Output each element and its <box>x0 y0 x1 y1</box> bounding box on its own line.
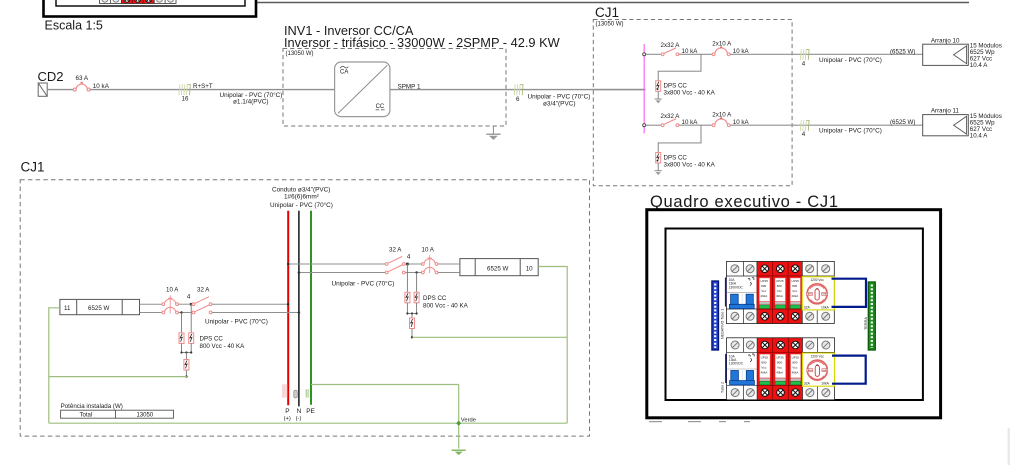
svg-text:6: 6 <box>516 96 520 103</box>
svg-text:4: 4 <box>187 294 191 301</box>
breaker 10A 2-pole (right branch) <box>421 246 438 274</box>
wires box to breaker (right branch) <box>438 264 460 273</box>
inverter CC symbol <box>376 104 385 110</box>
breaker 2x32A 10kA (branch 1) <box>661 42 699 55</box>
node CD2 label <box>38 69 64 84</box>
power label branch 2 <box>890 119 915 126</box>
vertical label NEGATIVO row 1 <box>720 309 724 339</box>
earth wire loop row 1 (blue) <box>832 279 867 307</box>
svg-text:4: 4 <box>802 131 806 138</box>
conduit labels <box>270 186 333 209</box>
DPS CC branch 2 tap wire <box>658 125 701 152</box>
svg-text:10 A: 10 A <box>166 287 179 294</box>
svg-text:P: P <box>285 408 289 415</box>
DPS tap wires (left branch) <box>182 304 192 333</box>
breaker 63A 10kA <box>73 75 109 91</box>
hatch on PE line <box>306 389 308 397</box>
svg-text:Total: Total <box>80 413 93 419</box>
DPS CC branch 1 tap wire <box>658 54 701 81</box>
hatch 4 (branch 1) <box>800 49 809 67</box>
svg-text:1#6(6)6mm²: 1#6(6)6mm² <box>284 194 319 201</box>
load box 6525 W / 10 <box>460 259 538 276</box>
DPS tie bar (left branch) <box>180 343 192 353</box>
svg-text:10.4 A: 10.4 A <box>970 132 988 139</box>
DPS CC (branch 1) <box>656 81 716 97</box>
hatch 6 on AC output <box>514 84 523 103</box>
cut text marks below panel <box>649 421 750 423</box>
svg-text:Unipolar - PVC (70°C): Unipolar - PVC (70°C) <box>819 56 882 64</box>
svg-text:6525 W: 6525 W <box>88 305 109 312</box>
label Escala 1:5 <box>45 18 103 32</box>
svg-text:4: 4 <box>802 60 806 67</box>
PE wire left branch (green) <box>49 308 187 423</box>
executive panel outer box <box>647 210 941 418</box>
svg-text:DPS CC: DPS CC <box>200 335 224 342</box>
ground DPS branch 1 <box>655 91 662 103</box>
DPS tie bar (right branch) <box>406 303 417 315</box>
earth terminal strip (green) <box>868 282 875 350</box>
svg-text:3x800 Vcc - 40 KA: 3x800 Vcc - 40 KA <box>664 90 716 97</box>
line N negative (black) <box>298 211 300 407</box>
svg-text:NEGATIVO Tubo 1: NEGATIVO Tubo 1 <box>720 309 724 339</box>
label SPMP 1 <box>398 83 421 90</box>
DPS CC (branch 2) <box>656 153 716 169</box>
svg-text:CJ1: CJ1 <box>21 159 45 174</box>
DPS CC third (left branch) <box>184 353 189 378</box>
Arranjo 11 data labels <box>970 113 1002 139</box>
cable label unipolar 3/4 <box>528 92 591 107</box>
svg-text:N: N <box>297 408 302 415</box>
INV1 heading <box>284 23 561 50</box>
svg-text:32 A: 32 A <box>197 287 210 294</box>
svg-text:13050: 13050 <box>137 413 154 419</box>
svg-text:CD2: CD2 <box>38 69 64 84</box>
breaker 32A 2-pole (left branch) <box>192 287 212 314</box>
cable label unipolar 1.1/4 <box>220 91 283 105</box>
svg-text:CJ1: CJ1 <box>595 5 619 20</box>
DPS CC pair (right branch) <box>405 292 469 309</box>
svg-text:DPS CC: DPS CC <box>423 295 447 302</box>
inverter frame ground <box>486 126 500 140</box>
svg-text:TERRA: TERRA <box>864 317 868 330</box>
rail stub row 2 <box>725 354 727 383</box>
wires box to breaker (left branch) <box>140 304 162 312</box>
DIN terminal cells row (cut) <box>100 0 177 3</box>
label Arranjo 11 <box>931 108 960 115</box>
CJ1 (top) power label <box>596 22 624 28</box>
negative terminal strip (blue) <box>712 281 719 350</box>
inverter U1 body <box>335 62 390 117</box>
svg-text:Tubo 2: Tubo 2 <box>720 382 724 393</box>
wire node to breaker 2.1 <box>646 124 662 126</box>
svg-text:2x32 A: 2x32 A <box>661 113 681 120</box>
PE wire right branch (green) <box>412 267 567 424</box>
scrollbar hint right edge <box>1008 428 1010 465</box>
busbar CC (magenta) <box>643 44 645 133</box>
svg-text:R+S+T: R+S+T <box>193 83 213 90</box>
wire CD2 to breaker <box>47 89 73 91</box>
svg-text:2x32 A: 2x32 A <box>661 42 681 49</box>
wire inverter to CJ1 busbar <box>390 88 646 90</box>
DIN assembly row 2 <box>727 338 835 400</box>
svg-text:(13050 W): (13050 W) <box>596 22 624 28</box>
earth wire loop row 2 (blue) <box>832 356 866 384</box>
svg-text:DPS CC: DPS CC <box>664 83 688 90</box>
svg-text:2x10 A: 2x10 A <box>712 111 732 118</box>
svg-text:6525 W: 6525 W <box>487 265 508 272</box>
DPS tap wires (right branch) <box>407 264 416 292</box>
inverter CA symbol <box>340 66 348 75</box>
quadro CD2 panel outer box (cut off at top) <box>44 0 257 17</box>
breaker 2x10A 10kA (branch 1) <box>712 40 749 55</box>
wire breaker to arranjo 10 <box>730 53 923 55</box>
svg-text:Unipolar - PVC (70°C): Unipolar - PVC (70°C) <box>332 279 395 287</box>
svg-text:3x800 Vcc - 40 KA: 3x800 Vcc - 40 KA <box>664 161 716 168</box>
conductor labels P N PE <box>284 408 316 422</box>
wire breaker to inverter <box>90 89 335 91</box>
wire between breakers (branch 1) <box>679 53 713 55</box>
page top border line <box>255 2 969 4</box>
cable label branch 1 <box>819 56 882 64</box>
svg-text:Conduto ø3/4"(PVC): Conduto ø3/4"(PVC) <box>272 186 330 193</box>
quadro CD2 panel inner box <box>56 0 245 6</box>
svg-text:Unipolar - PVC (70°C): Unipolar - PVC (70°C) <box>819 127 882 135</box>
svg-text:ø1.1/4(PVC): ø1.1/4(PVC) <box>233 98 269 105</box>
vertical label TERRA <box>864 317 868 330</box>
breaker 2x32A 10kA (branch 2) <box>661 113 699 127</box>
svg-text:(-): (-) <box>296 416 302 422</box>
CJ1 (top) label <box>595 5 619 20</box>
sleeve on N line <box>294 390 298 398</box>
hatch on P line <box>283 384 287 397</box>
cable label branch 2 <box>819 127 882 135</box>
wire and taps between breakers (right branch) <box>405 253 421 273</box>
svg-text:Arranjo 10: Arranjo 10 <box>931 37 960 44</box>
breaker 10A 2-pole (left branch) <box>162 287 179 314</box>
svg-text:PE: PE <box>306 408 315 415</box>
wire breaker to arranjo 11 <box>730 124 923 126</box>
executive panel inner box <box>666 229 923 401</box>
CJ1 (top) dashed enclosure <box>593 20 792 186</box>
hatch 4 (branch 2) <box>800 120 809 138</box>
INV1 dashed enclosure <box>283 49 506 127</box>
svg-text:11: 11 <box>64 305 71 312</box>
svg-text:CA: CA <box>340 70 348 76</box>
earth ground (green) <box>452 450 466 455</box>
svg-text:CC: CC <box>376 104 385 110</box>
svg-text:10 A: 10 A <box>422 246 435 253</box>
CJ1 (bottom) label <box>21 159 45 174</box>
node branch 2 <box>643 124 646 127</box>
svg-text:2x10 A: 2x10 A <box>712 40 732 47</box>
vertical label row 2 <box>720 382 724 393</box>
svg-text:800 Vcc - 40 KA: 800 Vcc - 40 KA <box>200 343 246 350</box>
hatch R+S+T (16) <box>179 83 213 103</box>
Arranjo 10 data labels <box>970 43 1002 70</box>
PE branch from PE line (green) <box>311 385 461 449</box>
svg-text:4: 4 <box>407 253 411 260</box>
svg-text:(13050 W): (13050 W) <box>286 51 314 57</box>
svg-text:Unipolar - PVC (70°C): Unipolar - PVC (70°C) <box>205 318 268 326</box>
svg-text:10: 10 <box>526 265 533 272</box>
svg-text:(6525 W): (6525 W) <box>890 119 915 126</box>
PV array Arranjo 11 box <box>923 115 969 136</box>
cable label (left branch) <box>205 318 268 326</box>
load box 11 / 6525 W <box>60 299 140 314</box>
svg-text:ø3/4"(PVC): ø3/4"(PVC) <box>543 101 575 108</box>
breaker 32A 2-pole (right branch) <box>385 246 405 274</box>
CD2 source box <box>38 83 47 96</box>
DPS CC third (right branch) <box>410 314 415 339</box>
wire and taps between breakers (left branch) <box>178 294 192 314</box>
rail stub row 1 <box>725 278 727 307</box>
svg-text:63 A: 63 A <box>76 75 89 82</box>
svg-text:16: 16 <box>182 96 189 103</box>
svg-text:10.4 A: 10.4 A <box>970 62 988 69</box>
svg-text:Potência instalada (W): Potência instalada (W) <box>61 403 123 410</box>
INV1 power label (13050 W) <box>286 51 314 57</box>
svg-text:Verde: Verde <box>461 417 476 423</box>
wires breaker to P/N lines (left branch) <box>212 303 300 314</box>
power label branch 1 <box>890 48 915 55</box>
wire between breakers (branch 2) <box>679 124 713 126</box>
breaker 2x10A 10kA (branch 2) <box>712 111 749 126</box>
svg-text:Arranjo 11: Arranjo 11 <box>931 108 960 115</box>
PE equipotential bottom wire (green) <box>49 422 567 424</box>
CJ1 (bottom) dashed enclosure <box>20 180 589 436</box>
svg-text:DPS CC: DPS CC <box>664 154 688 161</box>
svg-text:800 Vcc - 40 KA: 800 Vcc - 40 KA <box>423 303 469 310</box>
label Verde <box>461 417 476 423</box>
svg-text:Unipolar - PVC (70°C): Unipolar - PVC (70°C) <box>270 201 333 209</box>
node branch 1 <box>643 53 646 56</box>
svg-text:(6525 W): (6525 W) <box>890 48 915 55</box>
DPS CC pair (left branch) <box>179 333 245 350</box>
PV array Arranjo 10 box <box>923 44 969 65</box>
svg-text:Unipolar - PVC (70°C): Unipolar - PVC (70°C) <box>528 92 591 100</box>
heading Quadro executivo - CJ1 <box>650 193 839 211</box>
table potencia instalada <box>61 403 174 418</box>
svg-text:(+): (+) <box>284 416 291 422</box>
wires breaker to P/N lines (right branch) <box>287 263 385 274</box>
DIN assembly row 1 <box>726 262 834 324</box>
wire into busbar <box>593 89 643 91</box>
svg-text:Escala 1:5: Escala 1:5 <box>45 18 103 32</box>
line P positive (red) <box>287 211 289 406</box>
line PE earth (green) <box>310 211 312 405</box>
wire node to breaker 1.1 <box>646 53 662 55</box>
ground DPS branch 2 <box>655 163 662 175</box>
svg-text:Inversor - trifásico - 33000W: Inversor - trifásico - 33000W - 2SPMP - … <box>284 35 561 50</box>
label Arranjo 10 <box>931 37 960 44</box>
svg-text:32 A: 32 A <box>389 246 402 253</box>
cable label (right branch) <box>332 279 395 287</box>
